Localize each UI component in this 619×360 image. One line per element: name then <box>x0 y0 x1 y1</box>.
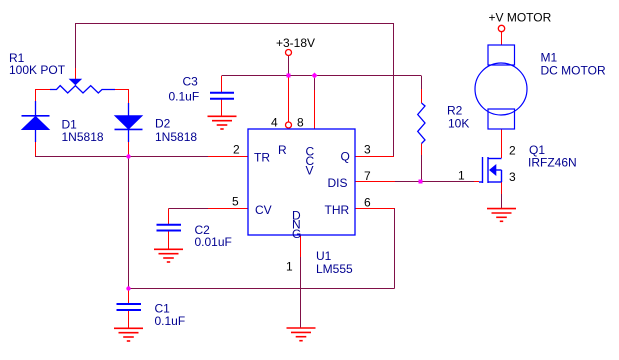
svg-text:6: 6 <box>364 196 371 210</box>
svg-text:3: 3 <box>364 143 371 157</box>
svg-text:2: 2 <box>233 143 240 157</box>
svg-text:DIS: DIS <box>328 176 348 190</box>
svg-text:C3: C3 <box>183 75 199 89</box>
svg-text:THR: THR <box>325 203 350 217</box>
svg-text:8: 8 <box>297 116 304 130</box>
svg-text:G: G <box>292 227 301 241</box>
svg-text:1: 1 <box>458 169 465 183</box>
svg-text:CV: CV <box>255 203 272 217</box>
svg-text:LM555: LM555 <box>316 262 353 276</box>
svg-text:4: 4 <box>271 116 278 130</box>
svg-text:1N5818: 1N5818 <box>62 130 104 144</box>
svg-text:R: R <box>278 143 287 157</box>
svg-text:0.01uF: 0.01uF <box>195 235 232 249</box>
svg-text:R2: R2 <box>447 104 463 118</box>
svg-text:Q: Q <box>341 150 350 164</box>
svg-text:3: 3 <box>509 170 516 184</box>
svg-text:U1: U1 <box>316 249 332 263</box>
svg-text:2: 2 <box>509 144 516 158</box>
svg-text:+3-18V: +3-18V <box>276 36 315 50</box>
svg-text:10K: 10K <box>448 117 469 131</box>
svg-text:DC MOTOR: DC MOTOR <box>541 64 606 78</box>
svg-text:D2: D2 <box>155 117 171 131</box>
svg-text:7: 7 <box>364 169 371 183</box>
svg-text:0.1uF: 0.1uF <box>169 90 200 104</box>
svg-text:V: V <box>306 164 314 178</box>
svg-text:1: 1 <box>286 260 293 274</box>
svg-text:0.1uF: 0.1uF <box>155 314 186 328</box>
svg-text:100K POT: 100K POT <box>9 63 66 77</box>
svg-text:1N5818: 1N5818 <box>155 130 197 144</box>
svg-text:IRFZ46N: IRFZ46N <box>528 156 577 170</box>
svg-text:5: 5 <box>232 195 239 209</box>
svg-text:M1: M1 <box>541 51 558 65</box>
svg-text:+V MOTOR: +V MOTOR <box>489 11 552 25</box>
svg-text:TR: TR <box>254 151 270 165</box>
